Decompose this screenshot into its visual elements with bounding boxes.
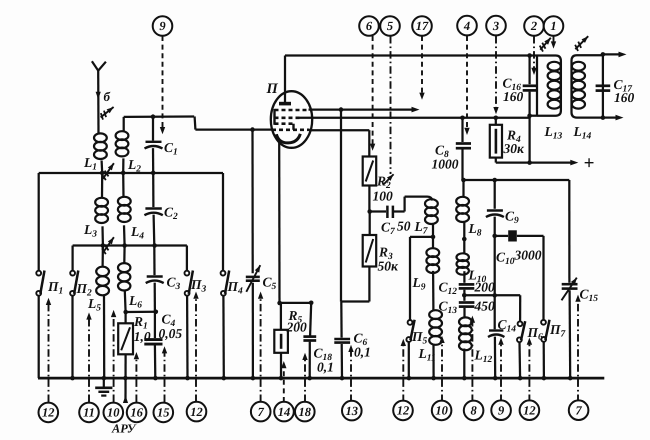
svg-text:450: 450 [474,299,496,314]
svg-text:160: 160 [614,90,635,105]
svg-text:+: + [584,153,595,174]
svg-text:6: 6 [366,19,373,33]
svg-text:18: 18 [299,405,312,419]
svg-text:160: 160 [503,89,524,104]
svg-text:9: 9 [498,403,505,417]
svg-text:100: 100 [373,189,394,204]
svg-text:0,1: 0,1 [317,360,334,375]
svg-text:12: 12 [523,403,536,417]
svg-text:8: 8 [470,404,477,418]
svg-text:200: 200 [286,320,308,335]
svg-text:30к: 30к [503,141,526,156]
svg-text:15: 15 [157,406,170,420]
svg-text:11: 11 [83,406,95,420]
svg-text:7: 7 [258,405,265,419]
svg-text:200: 200 [474,280,496,295]
svg-text:17: 17 [416,19,429,33]
svg-text:0,05: 0,05 [159,326,183,341]
svg-text:7: 7 [575,403,582,417]
svg-text:1000: 1000 [432,157,459,172]
svg-text:5: 5 [387,19,393,33]
svg-text:АРУ: АРУ [111,422,137,436]
svg-text:16: 16 [130,406,143,420]
svg-text:10: 10 [435,404,448,418]
svg-text:9: 9 [159,19,166,33]
svg-text:1: 1 [550,19,556,33]
svg-text:50: 50 [397,219,411,234]
svg-text:3000: 3000 [514,248,542,263]
svg-text:12: 12 [190,405,203,419]
svg-text:12: 12 [397,404,410,418]
svg-text:0,1: 0,1 [354,345,371,360]
svg-text:4: 4 [463,19,470,33]
svg-text:50к: 50к [378,259,400,274]
svg-text:б: б [104,89,111,104]
svg-text:П: П [266,81,279,97]
svg-text:13: 13 [346,404,359,418]
svg-text:14: 14 [278,405,291,419]
svg-text:10: 10 [107,406,120,420]
svg-text:3: 3 [492,19,499,33]
svg-text:12: 12 [42,406,55,420]
svg-text:2: 2 [530,19,537,33]
svg-text:1,0: 1,0 [134,329,151,344]
